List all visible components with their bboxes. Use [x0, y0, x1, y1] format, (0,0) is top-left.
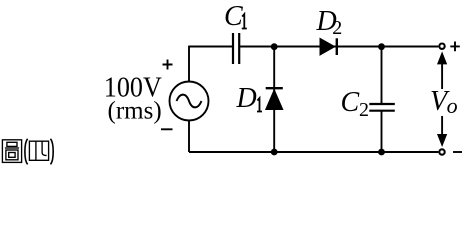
wire left vertical lower (source bottom to bottom wire) — [188, 121, 190, 153]
AC source sine wave — [177, 95, 202, 108]
label C1 subscript 1 — [242, 14, 247, 28]
svg-text:2: 2 — [359, 99, 369, 121]
node A junction dot (top, after C1) — [271, 43, 278, 50]
node bottom-right junction dot (C2 branch) — [378, 149, 385, 156]
Vo arrow lower shaft — [441, 116, 443, 136]
diode D2 (anode left, cathode right) triangle — [320, 38, 335, 55]
node bottom-left junction dot (D1 branch) — [271, 149, 278, 156]
output plus sign — [450, 42, 460, 52]
label D1 subscript 1 — [257, 98, 262, 111]
Vo arrow up head — [437, 51, 447, 64]
capacitor C2 top plate — [369, 103, 395, 105]
output minus sign — [453, 151, 462, 153]
wire top horizontal (C1 right plate to top terminal) — [239, 46, 438, 48]
wire top-left horizontal (source top to C1 left plate) — [189, 46, 233, 48]
wire bottom horizontal — [189, 151, 438, 153]
output top terminal (open circle) — [439, 44, 444, 49]
output bottom terminal (open circle) — [439, 149, 444, 154]
capacitor C1 left plate — [232, 33, 234, 64]
node B junction dot (top, after D2) — [378, 43, 385, 50]
svg-text:o: o — [447, 93, 458, 118]
wire C2 branch upper vertical — [381, 47, 383, 105]
svg-text:2: 2 — [332, 17, 342, 39]
AC source V1 circle — [170, 82, 209, 121]
source minus sign — [161, 128, 173, 130]
caption 圖(四) : character 圖 drawn as strokes — [2, 140, 21, 163]
caption right parenthesis — [51, 139, 54, 165]
capacitor C2 bottom plate — [369, 110, 395, 112]
source plus sign — [163, 60, 173, 70]
wire D1 branch vertical — [273, 47, 275, 153]
wire C2 branch lower vertical — [381, 111, 383, 152]
Vo arrow upper shaft — [441, 63, 443, 89]
svg-text:D: D — [236, 83, 257, 114]
Vo arrow down head — [437, 134, 447, 147]
diode D1 cathode bar — [266, 87, 283, 89]
caption 圖(四) : character 四 drawn as strokes — [29, 141, 48, 160]
capacitor C1 right plate — [238, 33, 240, 64]
svg-text:C: C — [341, 87, 360, 118]
svg-text:(rms): (rms) — [108, 97, 162, 124]
svg-text:C: C — [224, 1, 243, 32]
diode D1 (anode bottom, cathode top) triangle — [266, 90, 283, 110]
diode D2 cathode bar — [336, 38, 338, 55]
caption left parenthesis — [25, 139, 28, 165]
wire left vertical upper (top wire to source top) — [188, 46, 190, 82]
